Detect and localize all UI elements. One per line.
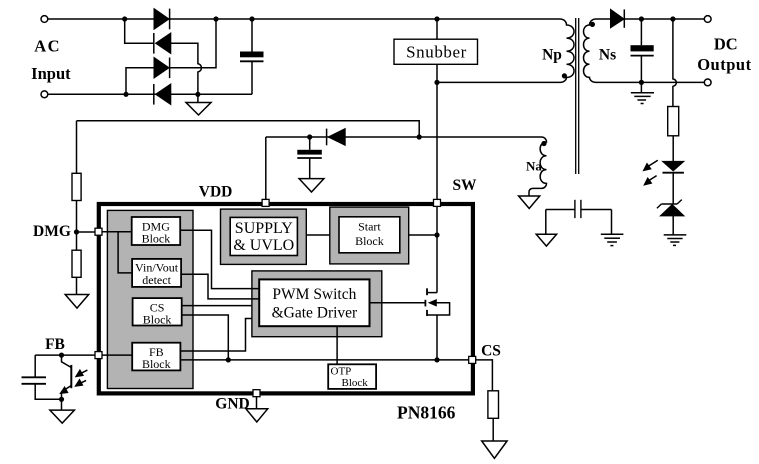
wire SUPPLY to Start xyxy=(306,234,330,236)
svg-text:DC: DC xyxy=(714,35,738,54)
block VinVout detect xyxy=(132,259,181,287)
wire DMG pin to DMG block xyxy=(99,231,132,233)
ground Na winding xyxy=(519,196,540,209)
block FB xyxy=(132,343,180,371)
LED light arrow 1 xyxy=(643,160,657,170)
wire bottom AC rail xyxy=(48,93,252,95)
resistor R1 DMG upper xyxy=(72,173,81,200)
block SUPPLY UVLO xyxy=(221,209,307,264)
pin GND xyxy=(253,390,260,397)
label DC Output xyxy=(697,35,751,75)
transformer auxiliary winding Na xyxy=(529,137,547,196)
wire Y-cap right lead down xyxy=(611,210,613,235)
junction snubber/Np/SW xyxy=(434,80,439,85)
wire stub to D3 xyxy=(126,68,154,95)
wire Np bottom lead xyxy=(437,81,560,83)
junction SW vertical xyxy=(434,232,439,237)
svg-text:& UVLO: & UVLO xyxy=(233,237,294,254)
wire zener to ground xyxy=(672,216,674,235)
ground bridge (chassis triangle) xyxy=(186,94,211,115)
block PWM Switch Gate Driver xyxy=(252,271,382,337)
phase dot Np xyxy=(562,73,567,78)
svg-text:Start: Start xyxy=(358,220,381,234)
wire GND pin stub xyxy=(256,397,258,409)
junction bottom rail at ground xyxy=(195,92,200,97)
junction FB emitter node xyxy=(59,397,64,402)
svg-text:Block: Block xyxy=(142,357,171,371)
pin FB xyxy=(95,352,102,359)
earth ground secondary xyxy=(631,82,654,103)
wire DMG node down xyxy=(76,232,78,250)
wire VDD node rail xyxy=(266,136,542,138)
block OTP xyxy=(328,364,376,389)
transformer core xyxy=(576,18,579,174)
wire output positive rail xyxy=(624,18,704,20)
opto light arrow 1 xyxy=(76,370,88,377)
wire DMG block to PWM xyxy=(180,230,259,288)
wire DMG pin branch to VinVout block xyxy=(118,232,132,273)
wire CS block to CS pin riser xyxy=(182,315,229,360)
left function panel xyxy=(107,210,193,388)
svg-text:SW: SW xyxy=(452,177,477,194)
svg-text:detect: detect xyxy=(142,273,171,287)
resistor R3 DMG lower xyxy=(72,250,81,277)
terminal DC output plus xyxy=(704,16,711,23)
junction MOSFET source xyxy=(434,357,439,362)
wire LED to zener xyxy=(672,173,674,204)
wire R4 to ground xyxy=(492,418,494,441)
wire PWM to gate xyxy=(370,302,426,304)
svg-text:Na: Na xyxy=(526,159,542,174)
transformer T1 secondary winding Ns xyxy=(584,19,597,82)
wire DMG divider vertical top xyxy=(76,121,78,174)
svg-text:SUPPLY: SUPPLY xyxy=(235,220,293,237)
diode D5 output rectifier xyxy=(611,9,625,27)
junction top rail at snubber xyxy=(434,16,439,21)
ground VDD cap xyxy=(299,179,324,192)
LED optocoupler diode xyxy=(663,161,684,172)
IC U1 outline PN8166 xyxy=(99,204,473,393)
ground FB network xyxy=(50,410,75,423)
svg-text:Np: Np xyxy=(542,47,562,64)
zener diode Z1 xyxy=(657,200,684,216)
opto light arrow 2 xyxy=(75,380,86,387)
pin SW xyxy=(434,199,441,206)
svg-text:Input: Input xyxy=(31,64,71,83)
opto transistor Q1 xyxy=(60,355,71,399)
wire R1 to DMG node xyxy=(76,201,78,233)
transformer T1 primary winding Np xyxy=(560,19,574,82)
wire FB node to ground xyxy=(61,399,63,410)
svg-text:Block: Block xyxy=(342,377,369,389)
junction top rail at bulk cap xyxy=(249,16,254,21)
junction VDD cap xyxy=(307,134,312,139)
capacitor C5 FB xyxy=(22,355,62,399)
wire FB rail xyxy=(35,354,95,356)
pin VDD xyxy=(262,199,269,206)
terminal AC line bottom xyxy=(41,91,48,98)
LED light arrow 2 xyxy=(644,176,657,185)
wire FB block to CS pin xyxy=(180,359,471,361)
wire FB pin to FB block xyxy=(99,354,133,356)
diode D3 bridge third xyxy=(154,58,170,79)
svg-text:PN8166: PN8166 xyxy=(397,403,456,423)
terminal DC output minus xyxy=(704,79,711,86)
svg-text:Output: Output xyxy=(697,55,751,74)
svg-text:OTP: OTP xyxy=(331,365,352,377)
junction CS riser xyxy=(226,357,231,362)
svg-text:GND: GND xyxy=(215,396,249,413)
svg-text:Block: Block xyxy=(143,313,172,327)
capacitor C4 Y-cap xyxy=(546,200,612,218)
capacitor C1 bulk xyxy=(240,19,264,94)
diode D1 bridge top xyxy=(154,9,170,30)
svg-text:&Gate Driver: &Gate Driver xyxy=(272,305,358,322)
wire PWM to OTP xyxy=(336,326,338,364)
svg-text:AC: AC xyxy=(34,37,61,56)
earth ground zener xyxy=(664,235,687,246)
svg-text:DMG: DMG xyxy=(33,223,71,240)
ground CS resistor xyxy=(482,441,507,458)
svg-text:Block: Block xyxy=(355,234,384,248)
diode D4 bridge bottom xyxy=(154,84,171,105)
junction DMG node xyxy=(74,229,79,234)
junction bottom rail at stub B xyxy=(123,92,128,97)
pin DMG xyxy=(95,228,102,235)
wire VDD riser xyxy=(265,137,267,200)
wire top AC rail xyxy=(48,18,560,20)
wire D3 to top rail xyxy=(170,19,216,68)
junction feedback branch top xyxy=(670,16,675,21)
junction aux node xyxy=(417,134,422,139)
ground Y-cap primary xyxy=(536,234,556,246)
wire Y-cap left lead down xyxy=(545,210,547,235)
pin CS xyxy=(469,356,476,363)
wire output negative rail xyxy=(596,81,704,83)
junction output cap top xyxy=(639,16,644,21)
resistor R2 feedback xyxy=(668,107,679,136)
wire CS pin to resistor xyxy=(476,360,492,391)
wire Ns top lead xyxy=(596,18,611,20)
junction output cap bottom xyxy=(639,80,644,85)
diode D2 bridge second xyxy=(154,33,171,54)
diode D6 VDD rectifier xyxy=(327,129,346,146)
svg-text:Block: Block xyxy=(142,232,171,246)
wire CS block to PWM xyxy=(182,305,252,307)
wire snubber top lead xyxy=(436,19,438,39)
svg-text:PWM Switch: PWM Switch xyxy=(272,286,356,303)
svg-text:FB: FB xyxy=(45,336,65,353)
block DMG xyxy=(132,217,181,246)
phase dot Ns xyxy=(590,22,595,27)
ground GND pin xyxy=(246,409,268,422)
resistor R4 current sense xyxy=(488,391,499,419)
wire Start to SW vertical xyxy=(409,234,437,236)
svg-text:Snubber: Snubber xyxy=(406,43,467,62)
wire SW vertical from snubber to IC xyxy=(436,64,438,200)
wire VinVout block to PWM xyxy=(181,274,259,299)
block Start xyxy=(330,207,409,264)
ground DMG divider xyxy=(65,295,89,309)
label AC Input xyxy=(31,37,71,84)
wire FB block to PWM xyxy=(180,319,252,352)
wire SW vertical inside IC xyxy=(436,206,438,293)
transistor M1 power MOSFET xyxy=(425,288,449,360)
wire D2 to bottom rail with hop xyxy=(171,43,202,94)
junction top rail at D3 riser xyxy=(213,16,218,21)
capacitor C3 VDD xyxy=(297,137,322,179)
capacitor C2 output xyxy=(631,19,654,82)
svg-text:Ns: Ns xyxy=(599,47,616,64)
wire resistor to LED xyxy=(672,136,674,162)
svg-text:VDD: VDD xyxy=(199,184,233,201)
wire R3 to ground xyxy=(76,277,78,294)
wire stub to D2 xyxy=(125,19,154,43)
svg-text:CS: CS xyxy=(481,343,501,360)
wire DMG node to pin xyxy=(77,231,96,233)
junction FB node xyxy=(59,353,64,358)
terminal AC line top xyxy=(41,16,48,23)
block CS xyxy=(133,298,182,326)
wire aux top from DMG divider to diode node xyxy=(77,121,420,137)
junction top rail at stub A xyxy=(122,16,127,21)
earth ground Y-cap secondary xyxy=(601,234,624,245)
snubber block xyxy=(394,39,478,64)
phase dot Na xyxy=(541,141,546,146)
wire feedback branch vertical with hop xyxy=(673,19,676,107)
